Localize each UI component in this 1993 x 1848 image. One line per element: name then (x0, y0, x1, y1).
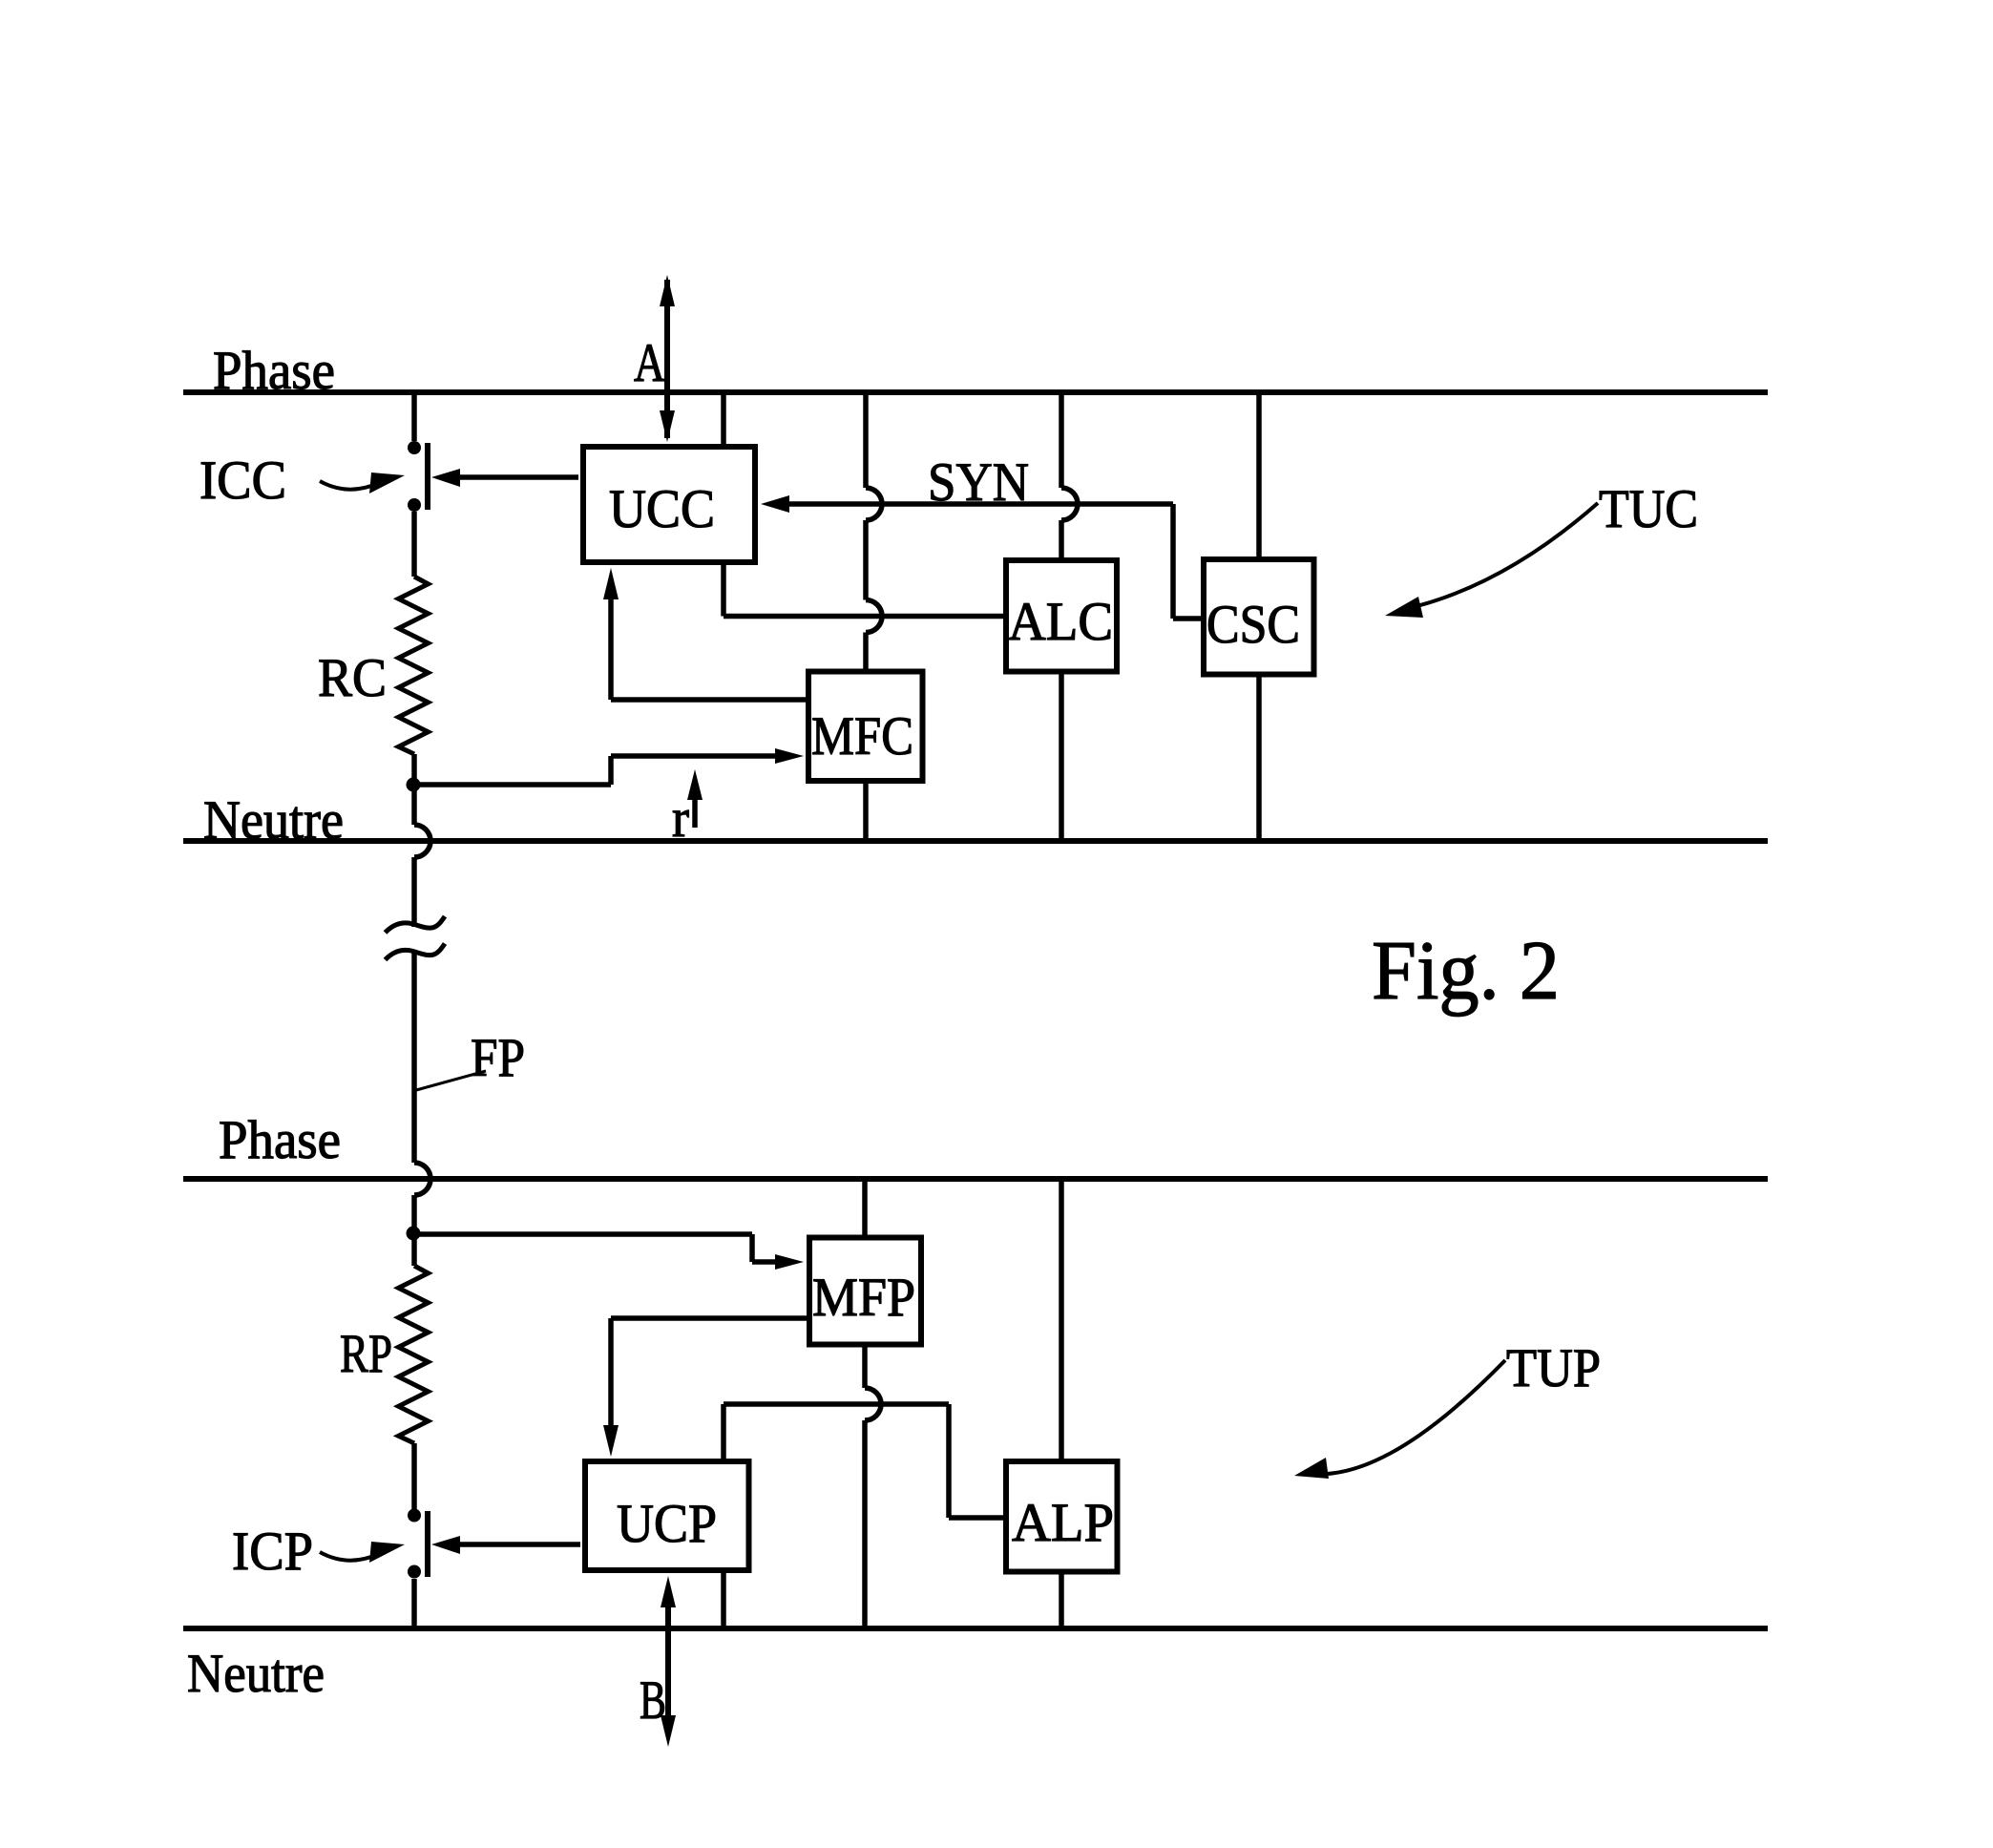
block ALP (1006, 1461, 1118, 1572)
wire UCP top to ALP (with corner jogs) (724, 1404, 1003, 1518)
wire UCC bottom to ALC (with vertical jog) (724, 565, 1003, 617)
wire junction to resistor RP (411, 1233, 417, 1266)
node Neutre label (top) (203, 790, 344, 850)
wire Phase (top bus) (183, 389, 1768, 395)
wire switch ICP to Neutre (411, 1579, 417, 1628)
node Phase label (top) (213, 341, 335, 401)
switch ICP (408, 1509, 428, 1579)
line break squiggle (upper) (386, 916, 446, 933)
junction node (407, 778, 421, 792)
wire CSC bottom to Neutre (1256, 678, 1262, 842)
label ICC (199, 451, 286, 511)
svg-text:B: B (640, 1670, 666, 1731)
pointer arrow TUC (1385, 503, 1598, 618)
block CSC (1204, 559, 1314, 675)
svg-text:RC: RC (318, 648, 387, 708)
wire Phase to MFP top (862, 1179, 868, 1235)
label RP (340, 1324, 392, 1384)
wire MFC to UCC (arrow up into UCC bottom) (603, 568, 806, 700)
op block UCC (583, 447, 755, 562)
wire junction to MFP (arrow right into MFP) (413, 1234, 804, 1270)
label Neutre (bottom) (187, 1644, 325, 1704)
label TUC (1599, 479, 1698, 539)
wire Phase to ALP top (1059, 1179, 1064, 1459)
svg-text:Phase: Phase (219, 1110, 341, 1170)
svg-text:r: r (672, 788, 689, 849)
wire MFP bottom to Neutre (hop over UCP/ALP wire) (865, 1348, 881, 1629)
wire switch to resistor RC (411, 512, 417, 577)
svg-text:ALP: ALP (1012, 1493, 1114, 1553)
svg-text:TUC: TUC (1599, 479, 1698, 539)
svg-text:ICC: ICC (199, 451, 286, 511)
svg-text:MFP: MFP (812, 1268, 915, 1328)
arrow A (double-headed) (660, 275, 675, 442)
svg-text:FP: FP (471, 1028, 525, 1088)
line break squiggle (lower) (386, 944, 446, 960)
label Phase (bottom) (219, 1110, 341, 1170)
label B (640, 1670, 666, 1731)
label r with arrow (687, 769, 703, 828)
pointer arrow ICC (320, 472, 405, 493)
block MFP (809, 1238, 921, 1345)
svg-text:SYN: SYN (928, 452, 1029, 513)
wire Phase to UCC top right (721, 392, 726, 444)
wire MFC bottom to Neutre (863, 784, 869, 841)
wire from Phase to switch ICC (411, 392, 417, 441)
svg-text:RP: RP (340, 1324, 392, 1384)
label ICP (232, 1522, 313, 1582)
switch ICC (408, 441, 428, 512)
wire junction down with hop over Neutre (414, 785, 430, 927)
svg-text:A: A (634, 333, 665, 393)
arrow B (double-headed through Neutre) (661, 1576, 676, 1747)
wire ALC bottom to Neutre (1059, 675, 1064, 842)
svg-text:ALC: ALC (1008, 592, 1113, 652)
resistor RP (399, 1266, 429, 1443)
svg-text:Neutre: Neutre (187, 1644, 325, 1704)
wire Phase to CSC (1256, 392, 1262, 556)
wire ALP bottom to Neutre (1059, 1575, 1064, 1629)
wire FP (link between sections) (414, 953, 430, 1233)
wire MFP to UCP (arrow down into UCP top) (603, 1318, 807, 1457)
pointer arrow TUP (1294, 1360, 1505, 1479)
label SYN (928, 452, 1029, 513)
wire Phase (bottom bus) (183, 1176, 1768, 1182)
svg-text:MFC: MFC (811, 706, 913, 766)
svg-text:CSC: CSC (1206, 595, 1300, 655)
block UCP (585, 1461, 749, 1570)
svg-text:UCC: UCC (609, 479, 715, 539)
wire UCP bottom to Neutre (721, 1573, 726, 1628)
label RC (318, 648, 387, 708)
label A (634, 333, 665, 393)
wire RC to junction (411, 754, 417, 785)
wire Phase to ALC (hop over SYN) (1061, 392, 1078, 557)
pointer arrow ICP (320, 1542, 405, 1563)
svg-text:Phase: Phase (213, 341, 335, 401)
wire Neutre (bottom bus) (183, 1626, 1768, 1631)
label Fig. 2 (1372, 925, 1560, 1018)
label FP (471, 1028, 525, 1088)
resistor RC (399, 577, 429, 754)
svg-text:Neutre: Neutre (203, 790, 344, 850)
junction node (bottom) (407, 1227, 421, 1241)
wire Phase down through hops into MFC top (866, 392, 882, 669)
wire junction to MFC (arrow right into MFC) (413, 748, 804, 785)
svg-text:Fig. 2: Fig. 2 (1372, 925, 1560, 1018)
wire RP to switch ICP (411, 1443, 417, 1509)
svg-text:TUP: TUP (1506, 1338, 1601, 1398)
label TUP (1506, 1338, 1601, 1398)
arrow from UCC to switch ICC (431, 469, 578, 487)
svg-text:UCP: UCP (617, 1494, 717, 1554)
pointer line FP (416, 1071, 486, 1090)
svg-text:ICP: ICP (232, 1522, 313, 1582)
arrow from UCP to switch ICP (431, 1536, 580, 1554)
block ALC (1006, 560, 1117, 672)
block MFC (808, 672, 923, 782)
wire Neutre (top bus) (183, 838, 1768, 844)
wire SYN with arrow into UCC (761, 495, 1201, 619)
